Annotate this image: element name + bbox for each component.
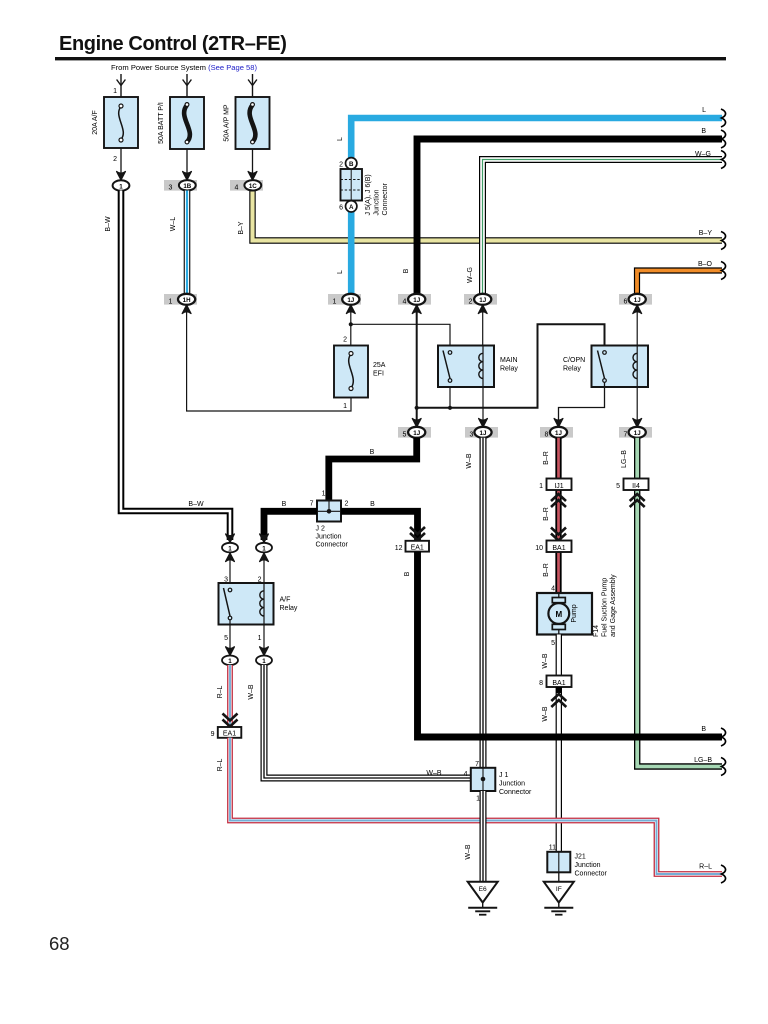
wire W-B from J1 to E6 ground	[480, 791, 487, 882]
svg-text:1: 1	[258, 635, 262, 642]
svg-text:A/F: A/F	[280, 597, 291, 604]
svg-text:LG–B: LG–B	[621, 450, 628, 468]
svg-text:W–L: W–L	[170, 217, 177, 232]
svg-text:10: 10	[535, 545, 543, 552]
svg-text:1: 1	[228, 658, 232, 665]
wire 2(1J) down to MAIN coil	[482, 306, 484, 347]
svg-text:B: B	[349, 161, 354, 168]
junction node at MAIN relay switch	[448, 406, 452, 410]
arrow into 7(1J)	[633, 419, 642, 428]
svg-text:8: 8	[545, 431, 549, 438]
svg-text:LG–B: LG–B	[694, 757, 712, 764]
svg-text:1J: 1J	[479, 297, 486, 304]
svg-text:1J: 1J	[634, 297, 641, 304]
svg-text:2: 2	[113, 156, 117, 163]
svg-text:1: 1	[476, 796, 480, 803]
svg-text:Relay: Relay	[280, 605, 298, 612]
svg-text:and Gage Assembly: and Gage Assembly	[610, 574, 617, 637]
wire fuse2 to connector	[186, 149, 188, 179]
wire R-L from A/F oval to EA1	[227, 665, 233, 727]
svg-text:Fuel Suction Pump: Fuel Suction Pump	[602, 578, 609, 637]
arrow below A/F left oval	[226, 553, 235, 562]
wire W-B from BA1 to J21	[556, 687, 562, 852]
svg-text:II4: II4	[632, 483, 640, 490]
svg-text:50A BATT P/I: 50A BATT P/I	[158, 102, 165, 144]
connector 1 (1J)	[328, 294, 361, 305]
feed arrow fuse 1	[117, 74, 126, 97]
connector 8 (1J)	[540, 427, 573, 438]
svg-text:W–B: W–B	[542, 706, 549, 722]
svg-text:BA1: BA1	[552, 545, 565, 552]
wire J21 to IF ground	[558, 872, 560, 881]
wire B thick J2 right to EA1	[341, 511, 418, 541]
svg-text:EA1: EA1	[223, 731, 236, 738]
svg-text:B–W: B–W	[105, 216, 112, 232]
svg-text:1J: 1J	[555, 430, 562, 437]
chevrons above BA1	[551, 528, 566, 541]
svg-text:MAIN: MAIN	[500, 357, 518, 364]
svg-text:Relay: Relay	[500, 366, 518, 373]
svg-text:7: 7	[624, 431, 628, 438]
wire C/OPN switch to 8(1J)	[559, 383, 605, 421]
connector 7 (1J)	[619, 427, 652, 438]
connector 2 (1J)	[464, 294, 497, 305]
svg-text:4: 4	[464, 771, 468, 778]
svg-text:1: 1	[228, 545, 232, 552]
svg-text:BA1: BA1	[552, 680, 565, 687]
fuse 50A A/P MP	[236, 97, 270, 149]
svg-text:W–G: W–G	[467, 267, 474, 283]
svg-text:Junction: Junction	[499, 781, 525, 788]
svg-text:Junction: Junction	[575, 862, 601, 869]
chevrons above 12 EA1	[410, 527, 425, 540]
svg-text:EFI: EFI	[373, 371, 384, 378]
connector 3 (1J)	[465, 427, 498, 438]
svg-text:B: B	[370, 449, 375, 456]
svg-text:R–L: R–L	[699, 864, 712, 871]
svg-text:Junction: Junction	[316, 534, 342, 541]
arrow into A/F right oval	[260, 534, 269, 543]
feed arrow fuse 3	[248, 74, 257, 97]
arrow into A/F left oval	[226, 534, 235, 543]
svg-text:1B: 1B	[183, 183, 191, 190]
svg-text:1: 1	[119, 183, 123, 190]
wire MAIN switch bottom pin	[449, 383, 451, 408]
wire W-L	[184, 191, 191, 295]
svg-text:Connector: Connector	[499, 789, 532, 796]
svg-text:11: 11	[549, 845, 556, 852]
junction connector J5(A) J6(B)	[341, 169, 363, 201]
svg-text:J 2: J 2	[316, 526, 325, 533]
wire C/OPN coil to 7(1J)	[636, 387, 638, 426]
brace L	[721, 109, 726, 127]
svg-text:2: 2	[343, 337, 347, 344]
svg-text:J 1: J 1	[499, 772, 508, 779]
svg-text:B: B	[403, 268, 410, 273]
connector 1 (1H)	[164, 294, 197, 305]
svg-text:1: 1	[262, 545, 266, 552]
svg-text:1: 1	[262, 658, 266, 665]
svg-text:E6: E6	[479, 886, 487, 893]
svg-text:B–R: B–R	[543, 507, 550, 521]
svg-text:6: 6	[624, 298, 628, 305]
svg-text:Relay: Relay	[563, 366, 581, 373]
junction node at 1J branch	[349, 322, 353, 326]
svg-text:From Power Source System (See: From Power Source System (See Page 58)	[111, 63, 258, 72]
svg-text:B–Y: B–Y	[699, 230, 713, 237]
wire 6(1J) down to C/OPN coil	[636, 306, 638, 347]
wire to A/F relay pin 3	[229, 553, 231, 590]
svg-text:B–O: B–O	[698, 261, 713, 268]
connector oval 1 (below pin5)	[222, 656, 238, 666]
svg-text:1: 1	[113, 88, 117, 95]
wire A/F pin 5 down	[229, 620, 231, 650]
svg-text:3: 3	[169, 184, 173, 191]
svg-text:5: 5	[224, 635, 228, 642]
svg-text:J21: J21	[575, 854, 586, 861]
svg-text:9: 9	[211, 731, 215, 738]
svg-text:1C: 1C	[249, 183, 257, 190]
svg-text:Connector: Connector	[382, 183, 389, 216]
svg-text:B: B	[701, 726, 706, 733]
wire A/F pin 1 down	[263, 625, 265, 651]
wire MAIN coil down to 3(1J)	[482, 387, 484, 426]
connector 4 (1J)	[398, 294, 431, 305]
wire LG-B from 7(1J) to II4	[634, 438, 640, 479]
wire branch to relay switches	[417, 324, 605, 408]
svg-text:Pump: Pump	[571, 604, 578, 622]
brace B bottom	[721, 728, 726, 746]
connector oval 1 (A/F pin3 side)	[222, 543, 238, 553]
arrow into connector 3(1B)	[183, 172, 192, 181]
arrow below 1H pointing up	[182, 305, 191, 314]
wire W-B from A/F relay to J1	[264, 665, 471, 778]
svg-text:8: 8	[539, 680, 543, 687]
wire L (cyan) from J5 connector to right edge	[351, 118, 722, 294]
wire B-Y from fuse 50A A/P MP to right edge	[253, 191, 723, 241]
pin 2 circle B	[346, 158, 357, 169]
ground 9 EA1	[218, 727, 242, 738]
svg-text:1J: 1J	[347, 297, 354, 304]
connector 4 (1C)	[230, 180, 263, 191]
svg-text:2: 2	[345, 501, 349, 508]
wire B thick from EA1 down to right edge	[418, 552, 723, 737]
chevrons above 9 EA1	[223, 714, 238, 727]
svg-text:Junction: Junction	[374, 189, 381, 215]
brace W-G	[721, 151, 726, 169]
arrow into A/F bottom right oval	[260, 647, 269, 656]
wire from 1H to EFI fuse pin 1	[187, 306, 351, 412]
svg-text:B: B	[701, 128, 706, 135]
brace B-Y	[721, 232, 726, 250]
fuse 20A A/F	[104, 97, 138, 148]
svg-text:7: 7	[475, 761, 479, 768]
wire B-W down-right to A/F relay oval	[121, 191, 230, 541]
relay A/F	[219, 583, 274, 625]
wire B thick from 5(1J) to J2	[329, 438, 417, 501]
svg-text:B: B	[404, 571, 411, 576]
arrow below 2(1J)	[478, 305, 487, 314]
wire LG-B from II4 to right edge	[637, 484, 722, 767]
svg-text:20A A/F: 20A A/F	[92, 110, 99, 135]
wire B thick J2 left to A/F relay oval	[264, 511, 317, 540]
brace B-O	[721, 262, 726, 280]
wire B (black thick) top to right edge	[417, 139, 722, 294]
svg-text:1: 1	[322, 491, 326, 498]
svg-text:IF: IF	[556, 886, 562, 893]
pin 6 circle A	[346, 201, 357, 212]
svg-text:2: 2	[339, 162, 343, 169]
svg-text:7: 7	[310, 501, 314, 508]
svg-text:1J: 1J	[413, 297, 420, 304]
svg-text:1: 1	[333, 298, 337, 305]
svg-text:3: 3	[470, 431, 474, 438]
svg-text:W–B: W–B	[465, 844, 472, 860]
connector oval 1 (below pin1)	[256, 656, 272, 666]
svg-text:J 5(A), J 6(B): J 5(A), J 6(B)	[365, 174, 372, 215]
connector 8 BA1	[547, 676, 572, 688]
wire 4(1J) down to 5(1J)	[416, 306, 418, 427]
connector 6 (1J)	[619, 294, 652, 305]
svg-text:C/OPN: C/OPN	[563, 357, 585, 364]
svg-text:L: L	[337, 270, 344, 274]
relay C/OPN	[592, 346, 649, 388]
arrow into A/F bottom left oval	[226, 647, 235, 656]
brace R-L	[721, 865, 726, 883]
arrow into connector 1	[117, 172, 126, 181]
svg-text:B–R: B–R	[543, 451, 550, 465]
svg-text:5: 5	[551, 640, 555, 647]
wire fuse1 to connector	[120, 148, 122, 179]
svg-text:2: 2	[469, 298, 473, 305]
svg-text:6: 6	[339, 205, 343, 212]
svg-text:1J: 1J	[634, 430, 641, 437]
wire to A/F relay pin 2	[263, 553, 265, 592]
svg-text:25A: 25A	[373, 362, 386, 369]
svg-text:1: 1	[539, 483, 543, 490]
wire B-O from right edge to connector 6(1J)	[637, 271, 722, 295]
connector 1 IJ1	[547, 479, 572, 491]
svg-text:B–R: B–R	[543, 563, 550, 577]
svg-text:1J: 1J	[413, 430, 420, 437]
brace LG-B	[721, 758, 726, 776]
svg-text:L: L	[337, 137, 344, 141]
svg-text:W–B: W–B	[466, 453, 473, 469]
arrow below A/F right oval	[260, 553, 269, 562]
svg-text:1: 1	[169, 298, 173, 305]
relay MAIN	[438, 346, 494, 388]
svg-text:1: 1	[343, 403, 347, 410]
connector oval 1 (A/F pin2 side)	[256, 543, 272, 553]
svg-text:A: A	[349, 204, 354, 211]
brace B	[721, 130, 726, 148]
svg-text:W–B: W–B	[248, 684, 255, 700]
arrow into 5(1J)	[412, 419, 421, 428]
fuel pump F14	[537, 593, 592, 635]
svg-text:68: 68	[49, 933, 70, 954]
connector 5 II4	[624, 479, 649, 491]
svg-text:B: B	[282, 501, 287, 508]
wire W-B from 3(1J) down to J1	[480, 438, 487, 768]
wire W-G from right edge to connector 2(1J)	[483, 160, 723, 295]
svg-text:1H: 1H	[183, 297, 191, 304]
ground IF	[544, 882, 574, 903]
svg-text:M: M	[555, 610, 562, 619]
svg-text:IJ1: IJ1	[554, 483, 563, 490]
arrow below 4(1J)	[412, 305, 421, 314]
svg-text:W–B: W–B	[426, 770, 442, 777]
svg-text:F14: F14	[593, 625, 600, 637]
svg-text:4: 4	[551, 586, 555, 593]
svg-text:1J: 1J	[480, 430, 487, 437]
svg-text:B–W: B–W	[188, 501, 204, 508]
wire R-L from EA1 to right edge	[230, 738, 722, 874]
arrow into 3(1J)	[479, 419, 488, 428]
connector oval 1	[113, 180, 130, 190]
ground 12 EA1	[406, 541, 430, 552]
wire 1(1J) down to EFI pin 2 with branch to relays	[350, 306, 352, 346]
chevrons below IJ1	[551, 494, 566, 507]
svg-text:4: 4	[403, 298, 407, 305]
svg-text:L: L	[702, 107, 706, 114]
svg-text:12: 12	[395, 545, 403, 552]
svg-text:B–Y: B–Y	[238, 221, 245, 235]
connector 5 (1J)	[398, 427, 431, 438]
arrow into 8(1J)	[554, 419, 563, 428]
feed arrow fuse 2	[183, 74, 192, 97]
wire B-R from 8(1J) to fuel pump	[555, 438, 561, 594]
svg-text:R–L: R–L	[217, 685, 224, 698]
chevrons below II4	[630, 494, 645, 507]
wire W-B pump to BA1	[556, 635, 562, 676]
connector 10 BA1	[547, 541, 572, 553]
svg-text:EA1: EA1	[411, 545, 424, 552]
svg-text:50A A/P MP: 50A A/P MP	[224, 104, 231, 142]
arrow into connector 4(1C)	[248, 172, 257, 181]
arrow below 1(1J)	[346, 305, 355, 314]
chevrons below 8 BA1	[551, 694, 566, 707]
svg-text:B: B	[370, 501, 375, 508]
svg-text:W–G: W–G	[695, 151, 711, 158]
svg-text:W–B: W–B	[542, 653, 549, 669]
svg-text:4: 4	[235, 184, 239, 191]
title rule	[55, 57, 726, 60]
wire fuse3 to connector	[252, 149, 254, 179]
ground E6	[468, 882, 498, 903]
svg-text:R–L: R–L	[217, 758, 224, 771]
fuse 50A BATT P/I	[170, 97, 204, 149]
connector 3 (1B)	[164, 180, 197, 191]
svg-text:5: 5	[616, 483, 620, 490]
svg-text:Connector: Connector	[575, 871, 608, 878]
svg-text:Engine Control (2TR–FE): Engine Control (2TR–FE)	[59, 33, 286, 55]
junction node	[415, 406, 419, 410]
svg-text:5: 5	[403, 431, 407, 438]
arrow below 6(1J)	[633, 305, 642, 314]
svg-text:Connector: Connector	[316, 542, 349, 549]
